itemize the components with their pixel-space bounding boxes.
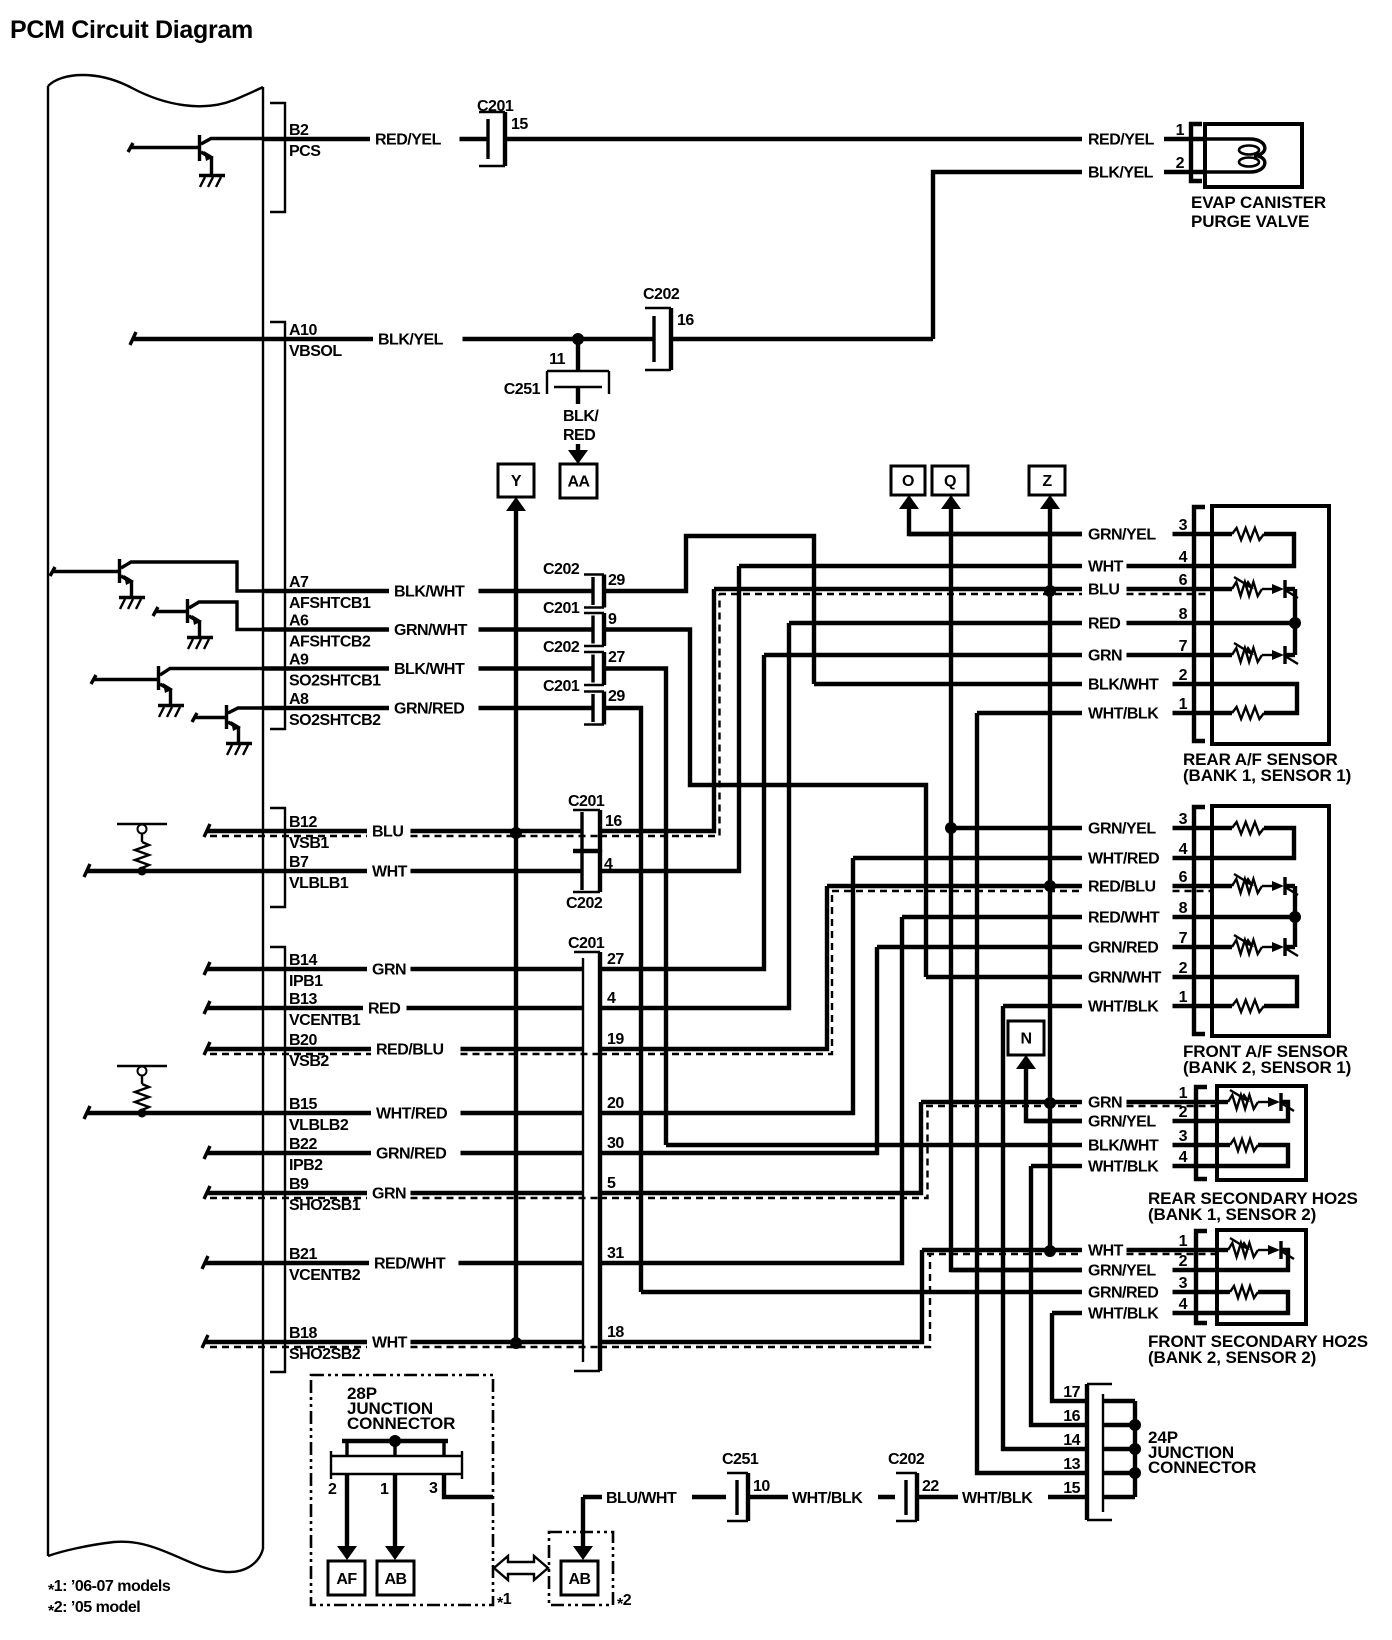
sensor cell (pin 7)	[1212, 945, 1232, 949]
junction Z/RED-BLU	[1044, 880, 1056, 892]
wire GRN/YEL sensor pin 3	[951, 811, 1213, 838]
junction Z/WHT	[1044, 1245, 1056, 1257]
wire B9 SHO2SB1 (GRN)	[204, 1176, 601, 1214]
off-page connector O	[891, 466, 925, 495]
svg-text:BLK/WHT: BLK/WHT	[1088, 1138, 1159, 1155]
24P junction connector	[1063, 1384, 1256, 1520]
wire O to GRN/YEL rear pin3	[899, 495, 1082, 534]
junction Z/GRN	[1044, 1097, 1056, 1109]
wire B15 WHT/RED riser	[600, 858, 853, 1113]
svg-text:GRN/RED: GRN/RED	[376, 1146, 446, 1163]
svg-text:BLK/WHT: BLK/WHT	[394, 584, 465, 601]
wire WHT/BLK sensor pin 1	[977, 696, 1213, 723]
wire N to GRN/YEL rear-sec pin2	[1016, 1055, 1082, 1121]
connector bracket	[1194, 507, 1205, 741]
svg-text:4: 4	[1179, 841, 1188, 858]
svg-text:15: 15	[511, 116, 528, 133]
off-page connector Y	[498, 464, 534, 497]
svg-text:16: 16	[677, 312, 694, 329]
wire B13 VCENTB1 (RED)	[204, 991, 583, 1029]
ground G3	[187, 638, 213, 650]
equivalence arrow *1/*2	[494, 1556, 548, 1580]
svg-text:WHT: WHT	[1088, 1243, 1124, 1260]
wire A6 GRN/WHT route to front sensor pin2	[604, 630, 926, 978]
svg-text:VLBLB1: VLBLB1	[289, 875, 349, 892]
svg-text:13: 13	[1063, 1456, 1080, 1473]
wire B14 GRN to GRN pin7 riser	[600, 655, 764, 969]
svg-text:WHT/BLK: WHT/BLK	[1088, 706, 1159, 723]
wire A8 GRN/RED route to front sec HO2S pin3	[604, 708, 641, 1292]
connector C251 pin 11 (vertical drop)	[504, 339, 609, 398]
svg-text:WHT/BLK: WHT/BLK	[962, 1490, 1033, 1507]
svg-text:GRN/RED: GRN/RED	[394, 701, 464, 718]
svg-text:GRN/WHT: GRN/WHT	[394, 622, 468, 639]
svg-text:C202: C202	[543, 639, 580, 656]
svg-text:14: 14	[1063, 1432, 1080, 1449]
wire Q sensor ground bank2	[941, 495, 1082, 1270]
svg-text:C202: C202	[888, 1451, 925, 1468]
heater resistor (pins 3-4)	[1217, 1143, 1230, 1147]
svg-text:1: 1	[1179, 696, 1188, 713]
svg-text:WHT/BLK: WHT/BLK	[1088, 1306, 1159, 1323]
svg-text:N: N	[1020, 1031, 1031, 1048]
EVAP canister purge valve	[1191, 124, 1326, 231]
svg-text:IPB1: IPB1	[289, 973, 323, 990]
svg-text:C202: C202	[566, 895, 603, 912]
svg-text:BLU: BLU	[372, 824, 403, 841]
junction Z/BLU	[1044, 585, 1056, 597]
junction Y/B12	[510, 827, 522, 839]
wire Y shield drain	[506, 497, 526, 1342]
svg-text:CONNECTOR: CONNECTOR	[347, 1414, 455, 1433]
svg-text:WHT/RED: WHT/RED	[1088, 851, 1159, 868]
svg-text:30: 30	[607, 1135, 624, 1152]
svg-text:(BANK 1, SENSOR 1): (BANK 1, SENSOR 1)	[1183, 766, 1351, 785]
svg-text:B2: B2	[289, 122, 309, 139]
wire A7 BLK/WHT route to rear sensor pin2	[604, 536, 814, 684]
wire B2 PCS (RED/YEL)	[263, 122, 488, 160]
pull-up resistor R1 (VLBLB1)	[117, 824, 167, 876]
wire WHT sensor pin 4	[739, 549, 1213, 576]
wire BLU/WHT	[583, 1490, 726, 1507]
heater resistor (pins 3-4)	[1232, 822, 1264, 834]
svg-text:VCENTB1: VCENTB1	[289, 1012, 361, 1029]
off-page connector N	[1008, 1021, 1044, 1055]
svg-text:BLK/YEL: BLK/YEL	[378, 332, 444, 349]
connector C202 pin 22	[888, 1451, 939, 1521]
svg-text:1: 1	[380, 1481, 389, 1498]
off-page connector AB	[377, 1561, 414, 1595]
svg-text:A6: A6	[289, 613, 309, 630]
svg-text:2: 2	[1179, 1253, 1188, 1270]
svg-text:Q: Q	[944, 473, 956, 490]
svg-text:GRN: GRN	[1088, 648, 1122, 665]
sensor cell (pins 1-2)	[1217, 1248, 1228, 1252]
svg-text:BLK/WHT: BLK/WHT	[394, 661, 465, 678]
connector bracket	[1191, 124, 1202, 181]
svg-text:B9: B9	[289, 1176, 309, 1193]
connector C201 pin 9	[543, 600, 617, 646]
svg-text:A10: A10	[289, 322, 317, 339]
svg-text:B15: B15	[289, 1096, 317, 1113]
transistor Q3 (AFSHTCB2 driver)	[153, 599, 263, 637]
svg-text:WHT: WHT	[372, 1335, 408, 1352]
svg-text:AA: AA	[567, 474, 590, 491]
svg-text:B22: B22	[289, 1136, 317, 1153]
wire B21 RED/WHT riser	[600, 917, 902, 1263]
svg-text:2: 2	[1179, 960, 1188, 977]
wire B13 RED to RED pin8 riser	[600, 623, 789, 1008]
svg-text:8: 8	[1179, 606, 1188, 623]
svg-text:RED/YEL: RED/YEL	[1088, 132, 1155, 149]
wire B20 RED/BLU riser	[600, 886, 832, 1054]
transistor Q1 (PCS driver)	[128, 135, 263, 175]
transistor Q4 (SO2SHTCB1 driver)	[91, 666, 263, 705]
svg-text:GRN: GRN	[372, 1186, 406, 1203]
wire WHT/BLK front-sec pin4 riser to 24P pin17	[1052, 1313, 1085, 1401]
ground G5	[226, 744, 252, 756]
svg-text:A8: A8	[289, 691, 309, 708]
wire B9 GRN riser	[600, 1102, 928, 1198]
transistor Q5 (SO2SHTCB2 driver)	[192, 705, 263, 743]
svg-text:19: 19	[607, 1031, 624, 1048]
svg-text:GRN: GRN	[1088, 1095, 1122, 1112]
junction Y/B18	[510, 1337, 522, 1349]
wire WHT/BLK rear-sec pin4 riser to 24P pin16	[1031, 1166, 1085, 1425]
sensor cell (pin 7)	[1212, 653, 1232, 657]
off-page connector Q	[932, 466, 968, 495]
svg-text:GRN/YEL: GRN/YEL	[1088, 1114, 1156, 1131]
svg-text:O: O	[902, 473, 914, 490]
svg-text:VLBLB2: VLBLB2	[289, 1117, 349, 1134]
svg-text:CONNECTOR: CONNECTOR	[1148, 1458, 1256, 1477]
off-page connector AF	[328, 1561, 365, 1595]
svg-text:IPB2: IPB2	[289, 1157, 323, 1174]
svg-text:1: 1	[1179, 989, 1188, 1006]
wire 28P pin2 to AF	[337, 1474, 357, 1560]
sensor cell (pin 6)	[1212, 884, 1232, 888]
wire BLK/WHT sensor pin 3	[666, 1128, 1218, 1155]
svg-text:4: 4	[607, 990, 616, 1007]
connector C201 (B14-B18 multi-pin)	[568, 935, 624, 1371]
alternate AB box (*2, dash-dot)	[549, 1532, 613, 1605]
svg-text:C201: C201	[543, 678, 580, 695]
svg-text:4: 4	[1179, 1149, 1188, 1166]
wire WHT/BLK (C251-C202)	[748, 1490, 895, 1507]
wire GRN/RED sensor pin 7	[877, 930, 1213, 957]
wire pin 8 common + junction	[1212, 621, 1295, 625]
svg-text:16: 16	[605, 813, 622, 830]
svg-text:29: 29	[608, 572, 625, 589]
connector C202 pin 16	[643, 286, 694, 370]
svg-text:A7: A7	[289, 574, 309, 591]
ground G1	[199, 176, 225, 188]
svg-text:PCM Circuit Diagram: PCM Circuit Diagram	[10, 16, 253, 44]
transistor Q2 (AFSHTCB1 driver)	[50, 559, 263, 597]
svg-text:VBSOL: VBSOL	[289, 343, 342, 360]
connector bracket	[1194, 807, 1205, 1034]
svg-text:PURGE VALVE: PURGE VALVE	[1191, 212, 1309, 231]
sensor body box	[1212, 506, 1329, 744]
svg-text:27: 27	[608, 649, 625, 666]
svg-text:22: 22	[922, 1478, 939, 1495]
svg-text:6: 6	[1179, 869, 1188, 886]
svg-text:RED: RED	[563, 427, 595, 444]
svg-text:B21: B21	[289, 1246, 317, 1263]
sensor cell (pins 1-2)	[1217, 1100, 1228, 1104]
PCM boundary (torn-edge box)	[48, 75, 263, 1572]
wire B18 SHO2SB2 (WHT)	[202, 1325, 601, 1363]
svg-text:VCENTB2: VCENTB2	[289, 1267, 361, 1284]
wire WHT sensor pin 1	[922, 1233, 1218, 1260]
heater resistor (pins 3-4)	[1217, 1290, 1230, 1294]
svg-text:16: 16	[1063, 1408, 1080, 1425]
svg-text:GRN/YEL: GRN/YEL	[1088, 821, 1156, 838]
wire RED/WHT sensor pin 8	[902, 900, 1213, 927]
svg-text:B14: B14	[289, 952, 317, 969]
svg-text:GRN/RED: GRN/RED	[1088, 1285, 1158, 1302]
svg-text:2: 2	[1179, 1104, 1188, 1121]
svg-text:2: 2	[1179, 667, 1188, 684]
svg-text:C251: C251	[504, 381, 541, 398]
ground G2	[119, 598, 145, 610]
svg-text:B12: B12	[289, 814, 317, 831]
wire B21 VCENTB2 (RED/WHT)	[202, 1246, 583, 1284]
wire A7 AFSHTCB1 (BLK/WHT)	[263, 574, 593, 612]
svg-text:RED/WHT: RED/WHT	[374, 1256, 446, 1273]
svg-text:B20: B20	[289, 1032, 317, 1049]
wire GRN/YEL sensor pin 2	[951, 1253, 1218, 1280]
wire GRN/WHT sensor pin 2	[926, 960, 1213, 987]
wire GRN sensor pin 7	[764, 638, 1213, 665]
sensor REAR SECONDARY HO2S (BANK 1, SENSOR 2)	[1148, 1086, 1358, 1224]
PCM connector bracket 4 (B14..B18)	[270, 947, 285, 1372]
wire 28P pin3 out	[444, 1474, 493, 1497]
svg-text:RED/BLU: RED/BLU	[376, 1042, 444, 1059]
svg-text:3: 3	[1179, 517, 1188, 534]
svg-text:C251: C251	[722, 1451, 759, 1468]
junction A10/C251	[572, 333, 584, 345]
off-page connector Z	[1029, 466, 1065, 495]
svg-text:WHT/BLK: WHT/BLK	[792, 1490, 863, 1507]
svg-text:GRN/WHT: GRN/WHT	[1088, 970, 1162, 987]
svg-text:C202: C202	[643, 286, 680, 303]
svg-text:AF: AF	[336, 1571, 357, 1588]
svg-text:PCS: PCS	[289, 143, 321, 160]
svg-text:WHT/BLK: WHT/BLK	[1088, 999, 1159, 1016]
sensor body box	[1212, 806, 1329, 1036]
sensor cell (pin 6)	[1212, 587, 1232, 591]
sensor body box	[1217, 1086, 1306, 1180]
svg-text:2: 2	[328, 1481, 337, 1498]
wire Z shield drain 2	[1040, 495, 1060, 1251]
wire B7 VLBLB1 (WHT)	[84, 854, 582, 892]
legend	[48, 1578, 171, 1620]
svg-text:10: 10	[753, 1478, 770, 1495]
svg-text:17: 17	[1063, 1384, 1080, 1401]
svg-text:(BANK 2, SENSOR 2): (BANK 2, SENSOR 2)	[1148, 1348, 1316, 1367]
PCM connector bracket 1 (B2)	[270, 103, 285, 212]
sensor FRONT A/F SENSOR (BANK 2, SENSOR 1)	[1183, 806, 1351, 1077]
connector C202 pin 27	[543, 639, 625, 685]
valve body box	[1205, 124, 1302, 187]
wire B18 WHT riser	[600, 1250, 930, 1347]
svg-text:4: 4	[1179, 1296, 1188, 1313]
svg-text:3: 3	[1179, 811, 1188, 828]
svg-text:C201: C201	[568, 793, 605, 810]
svg-text:SO2SHTCB2: SO2SHTCB2	[289, 712, 381, 729]
svg-text:Z: Z	[1042, 473, 1052, 490]
wire A9 BLK/WHT route to rear sec HO2S pin3	[604, 669, 666, 1146]
connector bracket	[1196, 1231, 1207, 1323]
sensor REAR A/F SENSOR (BANK 1, SENSOR 1)	[1183, 506, 1351, 785]
28P junction connector (dash-dot box)	[311, 1375, 493, 1605]
svg-text:29: 29	[608, 688, 625, 705]
ground G4	[158, 706, 184, 718]
svg-text:(BANK 2, SENSOR 1): (BANK 2, SENSOR 1)	[1183, 1058, 1351, 1077]
svg-text:RED/YEL: RED/YEL	[375, 132, 442, 149]
svg-text:A9: A9	[289, 652, 309, 669]
svg-text:WHT: WHT	[372, 864, 408, 881]
svg-text:AB: AB	[568, 1571, 590, 1588]
connector C202 pin 4	[566, 850, 613, 912]
svg-text:AFSHTCB1: AFSHTCB1	[289, 595, 371, 612]
svg-text:1: 1	[1176, 122, 1185, 139]
wire WHT/RED sensor pin 4	[853, 841, 1213, 868]
svg-text:RED: RED	[368, 1001, 400, 1018]
svg-text:AB: AB	[384, 1571, 406, 1588]
wire B7 WHT riser	[600, 566, 739, 871]
connector bracket	[1196, 1087, 1207, 1179]
svg-text:4: 4	[1179, 549, 1188, 566]
svg-text:(BANK 1, SENSOR 2): (BANK 1, SENSOR 2)	[1148, 1205, 1316, 1224]
svg-text:1: 1	[1179, 1085, 1188, 1102]
svg-text:6: 6	[1179, 572, 1188, 589]
wire B22 IPB2 (GRN/RED)	[204, 1136, 583, 1174]
svg-text:GRN/YEL: GRN/YEL	[1088, 1263, 1156, 1280]
svg-text:SO2SHTCB1: SO2SHTCB1	[289, 673, 381, 690]
svg-text:BLK/YEL: BLK/YEL	[1088, 165, 1154, 182]
svg-text:9: 9	[608, 611, 617, 628]
wire A10 BLK/YEL route	[671, 155, 1206, 339]
wire A8 SO2SHTCB2 (GRN/RED)	[263, 691, 593, 729]
wire BLK/WHT sensor pin 2	[814, 667, 1213, 694]
svg-text:RED/BLU: RED/BLU	[1088, 879, 1156, 896]
svg-text:C201: C201	[543, 600, 580, 617]
svg-text:27: 27	[607, 951, 624, 968]
connector C202 pin 29	[543, 561, 625, 608]
svg-text:15: 15	[1063, 1480, 1080, 1497]
wire GRN sensor pin 1	[921, 1085, 1218, 1112]
wire RED sensor pin 8	[789, 606, 1213, 633]
wire WHT/BLK rear pin1 riser to 24P pin13	[977, 713, 1085, 1473]
svg-text:C201: C201	[568, 935, 605, 952]
svg-text:11: 11	[549, 351, 566, 368]
svg-text:C201: C201	[477, 98, 514, 115]
28P busbar	[328, 1435, 462, 1498]
resistor (pins 2-1)	[1212, 977, 1297, 1006]
PCM connector bracket 3 (B12,B7)	[270, 808, 285, 907]
svg-text:31: 31	[607, 1245, 624, 1262]
wire BLU/WHT drop to AB	[573, 1497, 593, 1560]
junction Q/GRN-YEL front pin3	[945, 822, 957, 834]
resistor (pins 2-1)	[1212, 684, 1297, 713]
svg-text:Y: Y	[511, 473, 522, 490]
wire A10 VBSOL (BLK/YEL)	[130, 322, 654, 360]
heater resistor (pins 3-4)	[1232, 528, 1264, 540]
svg-text:1: 1	[1179, 1233, 1188, 1250]
wire 28P pin1 to AB	[385, 1474, 405, 1560]
wire RED/BLU sensor pin 6	[827, 869, 1213, 896]
connector C201 pin 16b	[568, 793, 622, 852]
svg-text:VSB1: VSB1	[289, 835, 329, 852]
wire BLU sensor pin 6	[714, 572, 1213, 599]
svg-text:3: 3	[1179, 1275, 1188, 1292]
svg-text:WHT/RED: WHT/RED	[376, 1106, 447, 1123]
connector C251 pin 10	[722, 1451, 770, 1521]
wire WHT/BLK sensor pin 4	[1052, 1296, 1218, 1323]
svg-text:18: 18	[607, 1324, 624, 1341]
svg-text:SHO2SB1: SHO2SB1	[289, 1197, 361, 1214]
svg-text:B18: B18	[289, 1325, 317, 1342]
svg-text:3: 3	[1179, 1128, 1188, 1145]
svg-text:RED: RED	[1088, 616, 1120, 633]
svg-text:WHT/BLK: WHT/BLK	[1088, 1159, 1159, 1176]
svg-text:8: 8	[1179, 900, 1188, 917]
solenoid coil L1	[1206, 139, 1265, 172]
wire pin 8 common + junction	[1212, 915, 1295, 919]
wire BLK/RED to AA	[563, 387, 599, 464]
PCM connector bracket 2 (A10,A7,A6,A9,A8)	[270, 322, 285, 729]
wire B2 RED/YEL to EVAP pin1	[505, 122, 1206, 149]
wire GRN/YEL sensor pin 2	[1026, 1104, 1218, 1131]
pull-up resistor R2 (VLBLB2)	[117, 1066, 167, 1118]
svg-text:EVAP CANISTER: EVAP CANISTER	[1191, 193, 1326, 212]
wire WHT/BLK (C202-24P pin15)	[917, 1490, 1087, 1507]
sensor FRONT SECONDARY HO2S (BANK 2, SENSOR 2)	[1148, 1230, 1368, 1367]
svg-text:VSB2: VSB2	[289, 1053, 329, 1070]
svg-text:20: 20	[607, 1095, 624, 1112]
wire B22 GRN/RED riser	[600, 947, 877, 1153]
svg-text:5: 5	[607, 1175, 616, 1192]
svg-text:AFSHTCB2: AFSHTCB2	[289, 634, 371, 651]
wire GRN/RED sensor pin 3	[641, 1275, 1218, 1302]
wire A9 SO2SHTCB1 (BLK/WHT)	[263, 652, 593, 690]
svg-text:B7: B7	[289, 854, 309, 871]
svg-text:BLU: BLU	[1088, 582, 1119, 599]
wire B20 VSB2 (RED/BLU)	[204, 1032, 601, 1070]
wire B12 BLU riser	[600, 589, 720, 836]
svg-text:BLK/: BLK/	[563, 408, 599, 425]
svg-text:GRN/YEL: GRN/YEL	[1088, 527, 1156, 544]
wire B12 VSB1 (BLU)	[204, 814, 601, 852]
wire B14 IPB1 (GRN)	[204, 952, 583, 990]
svg-text:RED/WHT: RED/WHT	[1088, 910, 1160, 927]
svg-text:GRN: GRN	[372, 962, 406, 979]
svg-text:BLU/WHT: BLU/WHT	[606, 1490, 677, 1507]
wire A6 AFSHTCB2 (GRN/WHT)	[263, 613, 593, 651]
svg-text:3: 3	[429, 1480, 438, 1497]
svg-text:2: 2	[1176, 155, 1185, 172]
connector C201 pin 29b	[543, 678, 625, 725]
wire GRN/YEL sensor pin 3	[909, 517, 1213, 544]
svg-text:B13: B13	[289, 991, 317, 1008]
svg-text:7: 7	[1179, 638, 1188, 655]
wire B15 VLBLB2 (WHT/RED)	[84, 1096, 583, 1134]
svg-text:C202: C202	[543, 561, 580, 578]
wire WHT/BLK sensor pin 1	[1003, 989, 1213, 1016]
svg-text:GRN/RED: GRN/RED	[1088, 940, 1158, 957]
